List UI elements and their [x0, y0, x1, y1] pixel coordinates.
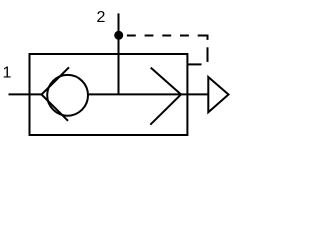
- svg-text:1: 1: [3, 65, 12, 82]
- svg-text:2: 2: [97, 9, 106, 26]
